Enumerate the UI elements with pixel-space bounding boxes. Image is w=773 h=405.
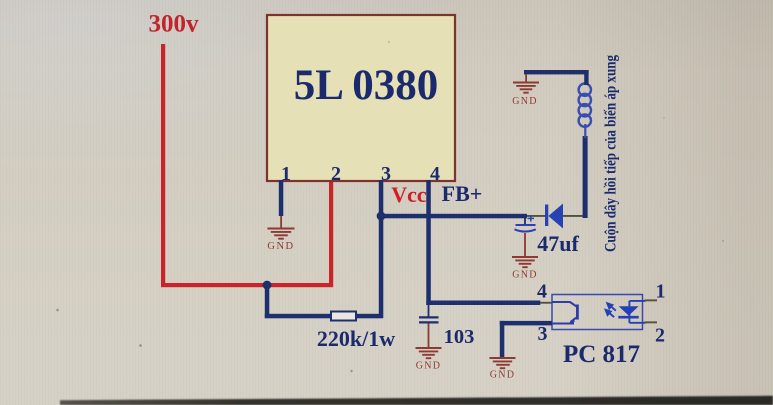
wire thin lead diode to coil branch (olive) xyxy=(563,215,584,217)
node B junction dot xyxy=(377,212,386,221)
wire right of R1 (navy) xyxy=(356,314,383,319)
wire pin 2 vertical (red) xyxy=(329,180,333,287)
svg-text:GND: GND xyxy=(416,361,442,372)
svg-text:Vcc: Vcc xyxy=(391,182,427,207)
wire pin 4 vertical (navy) xyxy=(426,180,431,305)
svg-text:GND: GND xyxy=(267,241,294,252)
opto U2 light arrow 1 xyxy=(607,303,616,310)
svg-text:GND: GND xyxy=(490,370,516,381)
ground G5 xyxy=(490,358,516,368)
diode D1 cathode bar xyxy=(545,205,548,227)
wire bottom horizontal left of R1 (navy) xyxy=(265,314,333,319)
opto U2 LED inner vertical xyxy=(628,301,630,323)
dust specks (decorative) xyxy=(56,41,724,372)
opto U2 phototransistor base bar xyxy=(576,305,579,320)
svg-text:5L 0380: 5L 0380 xyxy=(294,62,439,109)
photo bottom edge bar xyxy=(60,396,773,405)
IC U1 5L 0380 body xyxy=(267,15,455,181)
wire opto pin 3 horizontal (navy) xyxy=(500,321,552,326)
ground G2 xyxy=(416,348,442,358)
wire top horizontal to ground (navy) xyxy=(524,70,589,74)
opto pin 2 stub wire (olive) xyxy=(645,321,658,323)
node A junction dot xyxy=(263,281,272,290)
capacitor C1 103 top lead (thin navy) xyxy=(428,305,430,317)
wire 300v vertical (red) xyxy=(161,44,165,287)
inductor L1 coil xyxy=(579,84,591,127)
svg-text:103: 103 xyxy=(444,326,475,348)
svg-text:FB+: FB+ xyxy=(442,181,483,206)
svg-text:GND: GND xyxy=(512,270,538,281)
ground G1 xyxy=(268,229,295,239)
opto U2 PC817 body xyxy=(552,295,643,330)
wire node A down (navy) xyxy=(265,285,270,318)
opto U2 LED cathode bar xyxy=(618,316,638,319)
wire 300v horizontal to node A (red) xyxy=(161,283,333,287)
opto U2 phototransistor collector lead xyxy=(552,302,577,307)
capacitor C1 bottom lead (thin maroon) xyxy=(428,324,430,348)
capacitor C2 top lead (thin navy) xyxy=(524,216,526,225)
capacitor C2 bottom plate (curved) xyxy=(515,229,536,231)
wire thin lead to diode (olive) xyxy=(527,215,546,217)
opto U2 phototransistor emitter lead with arrow xyxy=(571,317,577,322)
opto U2 LED bottom stub xyxy=(629,322,645,324)
capacitor C2 plus sign xyxy=(528,215,535,221)
svg-text:300v: 300v xyxy=(149,11,200,38)
wire pin1 ground lead (thin maroon) xyxy=(280,216,282,228)
wire pin 4 horizontal to opto (navy) xyxy=(426,301,540,306)
svg-text:1: 1 xyxy=(656,281,666,303)
svg-text:3: 3 xyxy=(538,323,548,345)
svg-text:2: 2 xyxy=(655,325,665,347)
wire pin 3 vertical (navy) xyxy=(379,180,384,318)
capacitor C2 bottom lead (thin maroon) xyxy=(524,233,526,257)
svg-text:GND: GND xyxy=(512,96,538,107)
wire opto pin 3 vertical down (navy) xyxy=(500,321,505,358)
resistor R1 body xyxy=(331,312,356,321)
wire coil branch vertical thick (navy) xyxy=(583,136,588,218)
wire thin lead to opto pin4 (olive) xyxy=(540,302,552,304)
svg-text:PC 817: PC 817 xyxy=(563,341,640,368)
ground G3 xyxy=(512,257,538,267)
svg-text:4: 4 xyxy=(430,163,440,185)
wire FB horizontal (navy) xyxy=(381,214,527,219)
svg-text:47uf: 47uf xyxy=(537,231,579,256)
opto U2 LED triangle xyxy=(619,306,639,315)
opto U2 LED top stub xyxy=(629,300,645,302)
wire pin 1 vertical (navy) xyxy=(279,180,284,216)
capacitor C1 plates xyxy=(419,317,439,322)
svg-text:4: 4 xyxy=(537,281,547,303)
svg-text:220k/1w: 220k/1w xyxy=(317,326,395,351)
diode D1 triangle xyxy=(548,204,563,229)
svg-text:2: 2 xyxy=(331,163,341,185)
ground G4 xyxy=(513,83,539,93)
svg-text:Cuộn dây hồi tiếp của biến áp: Cuộn dây hồi tiếp của biến áp xung xyxy=(602,55,620,252)
opto U2 light arrow 2 xyxy=(606,310,615,317)
ground G4 lead (thin maroon) xyxy=(525,74,527,82)
capacitor C2 top plate xyxy=(516,224,536,226)
opto pin 1 stub wire (olive) xyxy=(645,299,658,301)
wire coil bottom thin lead xyxy=(584,124,586,138)
wire coil top corner vertical xyxy=(584,70,588,85)
